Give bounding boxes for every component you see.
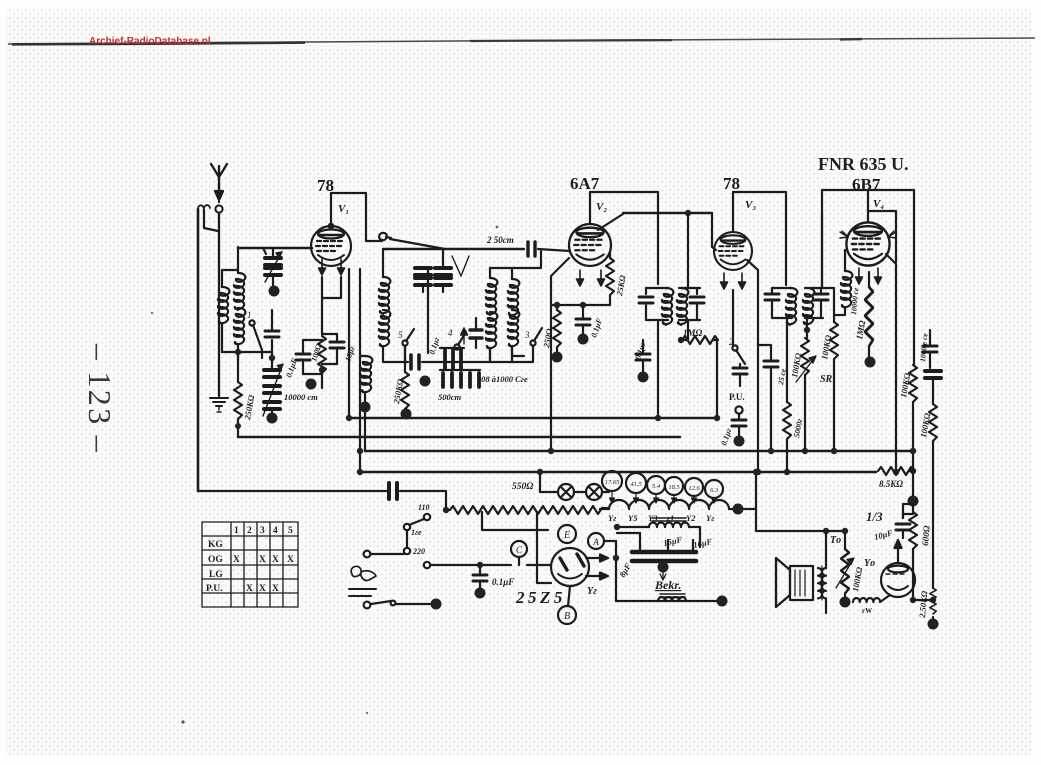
junction — [269, 355, 275, 361]
svg-text:E: E — [563, 530, 570, 541]
svg-text:4: 4 — [273, 526, 278, 536]
svg-text:V₃: V₃ — [745, 199, 756, 211]
mains wire — [370, 553, 404, 555]
terminal osc — [401, 409, 412, 420]
svg-text:X: X — [259, 555, 266, 565]
wire chassis vertical — [197, 209, 200, 491]
output transformer — [818, 566, 826, 600]
terminal cathode — [306, 379, 317, 390]
terminal trimmer grid — [269, 286, 280, 297]
svg-text:V₄: V₄ — [873, 198, 884, 210]
lead-in hooks — [198, 205, 210, 210]
junction — [823, 528, 829, 534]
lead-in jog — [204, 210, 218, 231]
junction — [235, 349, 241, 355]
switch 2 PU — [729, 337, 745, 364]
wire V3 right down — [747, 260, 758, 472]
bus y437 — [238, 436, 680, 439]
V2 plate diag — [598, 214, 623, 230]
junction — [655, 415, 661, 421]
svg-text:A: A — [592, 537, 599, 547]
junction — [319, 367, 325, 373]
wire V1 to 250cm cap — [390, 239, 445, 249]
svg-text:Yо: Yо — [864, 558, 875, 569]
wire heater to bus — [744, 472, 756, 531]
wire primary top — [825, 531, 827, 568]
wire mixer bottom — [490, 346, 533, 362]
svg-text:6B7: 6B7 — [852, 175, 881, 194]
svg-text:78: 78 — [723, 174, 740, 193]
svg-text:P.U.: P.U. — [206, 584, 223, 594]
svg-text:5: 5 — [288, 526, 293, 536]
terminal tone — [840, 597, 851, 608]
voltage circle 17.65 — [602, 471, 622, 503]
hum choke Bekr — [658, 594, 686, 601]
svg-text:Yг: Yг — [706, 513, 714, 523]
wire mains bus y491 — [198, 490, 386, 492]
IF transformer T2 — [677, 288, 704, 325]
capacitor 0.1uF PU top — [733, 364, 747, 386]
svg-text:Archief-RadioDatabase.nl: Archief-RadioDatabase.nl — [89, 36, 211, 47]
resistor 5000ohm — [783, 402, 791, 472]
capacitor 10uF Y6 — [896, 514, 913, 538]
terminal — [552, 352, 563, 363]
resistor 250K ant — [234, 360, 242, 437]
terminal — [578, 334, 589, 345]
resistor 250K bottom — [930, 588, 936, 621]
junction — [548, 448, 554, 454]
svg-text:500cm: 500cm — [438, 392, 462, 402]
svg-text:C: C — [516, 545, 523, 555]
svg-text:110: 110 — [418, 503, 430, 512]
wire V1 plate vertical — [359, 269, 361, 472]
svg-text:1ге: 1ге — [411, 528, 422, 537]
switch 3 — [524, 328, 542, 346]
terminal B- — [717, 596, 728, 607]
junction — [831, 448, 837, 454]
junction — [755, 469, 761, 475]
svg-text:4: 4 — [448, 328, 453, 338]
mains terminal — [364, 551, 371, 558]
capacitor 250cm — [528, 242, 570, 256]
svg-text:1MΩ: 1MΩ — [683, 328, 703, 338]
dial lamp 2 — [586, 484, 602, 500]
svg-text:17.65: 17.65 — [605, 479, 620, 486]
svg-text:3: 3 — [260, 526, 265, 536]
bus y418 — [349, 417, 717, 420]
voltage circle 12.6 — [685, 478, 703, 503]
potentiometer 550ohm — [446, 506, 607, 514]
ground — [210, 398, 228, 412]
V3 cathode arrows — [721, 273, 728, 289]
svg-text:3: 3 — [524, 330, 530, 340]
resistor 25K screen — [606, 252, 614, 305]
wire cluster A bottom — [222, 352, 272, 360]
wire T4 bottom — [806, 318, 808, 338]
switch table — [202, 522, 298, 607]
cap 0.1uF osc lead — [427, 270, 429, 353]
svg-text:18.5: 18.5 — [668, 484, 680, 491]
junction — [910, 597, 916, 603]
svg-text:LG: LG — [209, 570, 223, 580]
tube Y6 output — [881, 563, 915, 597]
wire T2 bottom — [681, 320, 688, 340]
wire to V3 grid — [712, 213, 716, 250]
coil L4 osc — [379, 250, 390, 314]
svg-text:X: X — [272, 555, 279, 565]
junction — [678, 337, 684, 343]
cap common terminal — [658, 562, 669, 581]
V1 cathode arrows — [319, 259, 326, 275]
capacitor 0.1uF mains — [473, 565, 487, 589]
voltage circle 6.3 — [705, 480, 723, 503]
junction — [614, 524, 620, 530]
resistor 100ohm cathode — [318, 336, 326, 388]
resistor 100K diode load — [801, 338, 809, 451]
trimmer grid — [263, 248, 282, 286]
wire y213 — [623, 212, 712, 214]
svg-text:г1: г1 — [667, 513, 674, 523]
circle B — [558, 586, 576, 624]
junction — [714, 415, 720, 421]
bus y451 — [365, 450, 915, 453]
svg-text:X: X — [246, 584, 253, 594]
speaker — [776, 558, 813, 607]
plug prongs — [349, 589, 376, 596]
heater chain ends — [600, 508, 734, 510]
svg-text:P.U.: P.U. — [729, 392, 745, 402]
PU jack — [735, 406, 742, 413]
wire tube out to rail — [913, 599, 933, 601]
rf choke u — [366, 233, 391, 241]
svg-text:B: B — [564, 611, 570, 622]
terminal — [638, 372, 649, 383]
wire C row — [527, 564, 551, 566]
junction — [768, 448, 774, 454]
svg-text:78: 78 — [317, 176, 334, 195]
svg-text:6.3: 6.3 — [710, 487, 719, 494]
resistor 600ohm — [909, 506, 917, 600]
dial lamp 1 — [558, 484, 574, 500]
capacitor 1000 ohm cm blob — [925, 371, 941, 404]
wire T3 down — [786, 318, 788, 402]
svg-text:гW: гW — [862, 607, 872, 615]
wire antenna down — [218, 213, 220, 396]
switch 1 band — [247, 310, 262, 358]
svg-text:Yг: Yг — [608, 513, 616, 523]
circle E — [558, 525, 576, 543]
switch 4 — [448, 328, 466, 350]
V2 grid cap box — [590, 192, 658, 284]
capacitor 1000cm — [923, 330, 937, 368]
V1 cathode wires — [322, 277, 341, 334]
svg-text:Tо: Tо — [830, 535, 841, 546]
svg-text:220: 220 — [412, 547, 425, 556]
terminal — [865, 357, 876, 368]
svg-text:Y2: Y2 — [686, 513, 696, 523]
junction — [357, 448, 363, 454]
terminal PU — [734, 436, 745, 447]
potentiometer SR arrow — [796, 356, 816, 382]
resistor 100K avc — [830, 288, 838, 451]
terminal 600 top — [908, 496, 919, 507]
wire mixer top — [490, 251, 541, 268]
circle C — [511, 541, 527, 565]
junction — [930, 597, 936, 603]
wire to pot — [445, 491, 447, 510]
terminal bottom right — [928, 619, 939, 630]
resistor 100K rail — [909, 365, 917, 471]
svg-text:X: X — [287, 555, 294, 565]
wire pot tap2 down — [537, 512, 551, 583]
rectifier plate arrows — [586, 555, 608, 562]
antenna terminal — [215, 205, 222, 212]
svg-text:Yг: Yг — [587, 586, 597, 597]
V4 side box — [822, 190, 896, 288]
junction — [613, 555, 619, 561]
trimmer cap variable 10000cm — [263, 352, 283, 416]
voltage circle 18.5 — [665, 477, 683, 503]
svg-text:SR: SR — [820, 374, 833, 385]
junction — [477, 562, 483, 568]
junction — [802, 448, 808, 454]
resistor 1M — [682, 336, 718, 344]
coil L7 mixer — [508, 268, 524, 356]
terminal switch — [431, 599, 442, 610]
wire V3 down — [732, 290, 734, 345]
wire pot tap down — [482, 512, 548, 530]
scan line artifact — [8, 38, 1035, 44]
IF transformer T3 — [765, 288, 797, 325]
junction pot — [443, 507, 449, 513]
capacitor mains coupling — [389, 483, 446, 499]
wire B- bottom — [616, 600, 722, 602]
V2 cathode arrows — [577, 270, 584, 286]
svg-text:Y5: Y5 — [628, 513, 638, 523]
coil 10000cm — [834, 250, 852, 315]
wire osc row y362 — [422, 361, 529, 363]
tuning gang caps — [415, 249, 469, 292]
wire V1 screen vertical — [348, 269, 350, 418]
coil L6 mixer — [486, 268, 497, 360]
rectifier 25Z5 — [551, 548, 589, 586]
lamp wires — [540, 491, 609, 493]
series cap osc — [411, 355, 419, 369]
junction — [554, 302, 560, 308]
svg-text:550Ω: 550Ω — [512, 482, 533, 492]
svg-text:1: 1 — [234, 526, 239, 536]
svg-text:41.5: 41.5 — [630, 481, 642, 488]
junction — [804, 327, 810, 333]
svg-text:– 123 –: – 123 – — [82, 343, 118, 454]
svg-text:V₂: V₂ — [596, 201, 607, 213]
terminal — [420, 376, 431, 387]
svg-text:1/3: 1/3 — [866, 509, 883, 524]
switch 5 — [398, 329, 414, 362]
svg-text:12.6: 12.6 — [688, 485, 700, 492]
svg-text:8.5KΩ: 8.5KΩ — [879, 479, 903, 489]
svg-text:Bekr.: Bekr. — [654, 578, 681, 592]
antenna — [211, 164, 227, 202]
wire A to rail — [604, 540, 616, 542]
power transformer tap switch — [404, 514, 430, 554]
svg-text:г08 à1000 Cге: г08 à1000 Cге — [478, 374, 528, 384]
svg-text:1: 1 — [247, 310, 252, 320]
tube V1 78 — [311, 224, 351, 266]
capacitor 25cm — [758, 345, 778, 451]
svg-text:2 50cm: 2 50cm — [486, 235, 514, 245]
wire transformer feed — [756, 530, 845, 532]
svg-text:6A7: 6A7 — [570, 174, 600, 193]
svg-text:5: 5 — [398, 330, 403, 340]
resistor 8.5K — [878, 467, 914, 475]
heater chain — [609, 500, 729, 509]
junction — [842, 528, 848, 534]
wire lower tap — [424, 562, 430, 568]
svg-text:2: 2 — [247, 526, 252, 536]
svg-text:25Z5: 25Z5 — [515, 588, 566, 607]
junction — [910, 468, 916, 474]
svg-text:0.1μF: 0.1μF — [492, 577, 514, 587]
IF transformer T4 — [803, 288, 828, 325]
V4 box top — [822, 190, 914, 222]
coil L1 antenna — [218, 270, 229, 352]
capacitor 0.1uF PU bottom — [732, 414, 746, 436]
capacitor 10uF cathode — [322, 334, 344, 364]
wire V2 bias row — [551, 304, 610, 306]
wire right rail — [913, 190, 915, 365]
mains plug — [351, 566, 376, 580]
tube V4 6B7 — [846, 222, 889, 265]
resistor 250K osc — [401, 346, 409, 412]
junction — [346, 415, 352, 421]
coil L5 osc — [379, 310, 408, 362]
terminal cap — [475, 588, 486, 599]
potentiometer 100K tone — [836, 531, 854, 599]
wire top of 600ohm — [912, 471, 914, 501]
V1 grid cap box — [331, 193, 366, 241]
coil L3 — [234, 308, 245, 360]
band caps cluster 500cm — [440, 348, 480, 387]
variable arrow — [461, 328, 468, 344]
coil L2 — [234, 247, 245, 310]
capacitor 0.1uF — [296, 340, 322, 374]
cap pair mid — [470, 318, 482, 348]
wire T4 top link — [823, 287, 834, 289]
svg-text:X: X — [259, 584, 266, 594]
junction — [893, 469, 899, 475]
electrolytic caps 15uF 16uF 8uF — [617, 533, 696, 561]
wire T2 top — [687, 213, 689, 288]
svg-text:5.4: 5.4 — [652, 483, 661, 490]
grid coil FW — [853, 595, 890, 602]
svg-text:600Ω: 600Ω — [920, 525, 932, 546]
wire PU vertical — [716, 340, 718, 418]
wire osc to bus — [364, 412, 366, 451]
wire Y6 top to 600 — [903, 504, 913, 518]
svg-text:FNR 635 U.: FNR 635 U. — [818, 154, 909, 174]
wire T1 down — [657, 320, 659, 418]
oscillator coil — [360, 356, 372, 402]
circle A — [588, 533, 604, 549]
IF transformer T1 — [639, 288, 673, 325]
svg-text:Y3: Y3 — [648, 513, 658, 523]
V4 side grid arrows — [840, 231, 848, 238]
terminal heater — [733, 504, 744, 515]
resistor 100K agc — [929, 404, 937, 588]
capacitor 0.1uF if — [636, 340, 650, 372]
filter choke — [617, 518, 700, 547]
junction — [685, 210, 691, 216]
wire V2 left down — [551, 258, 569, 451]
svg-text:X: X — [272, 584, 279, 594]
mains switch — [364, 601, 430, 609]
junction — [910, 448, 916, 454]
capacitor 0.1uF V2 — [576, 305, 590, 335]
terminal — [267, 413, 278, 424]
svg-text:V₁: V₁ — [338, 203, 349, 215]
voltage circle 41.5 — [626, 473, 646, 503]
svg-text:KG: KG — [208, 540, 223, 550]
page number 123 rotated — [82, 343, 118, 454]
voltage circle 5.4 — [647, 476, 665, 503]
svg-text:X: X — [233, 555, 240, 565]
svg-text:10000 cm: 10000 cm — [284, 392, 318, 402]
resistor 250ohm — [553, 305, 561, 354]
capacitor padder — [265, 310, 279, 352]
wire coil tops — [222, 269, 238, 271]
svg-text:OG: OG — [208, 555, 223, 565]
junction — [753, 469, 759, 475]
wire V4 right down — [886, 254, 896, 472]
tube V2 6A7 — [569, 224, 611, 266]
bus y472 — [359, 471, 876, 474]
Y6 grid cap arrow — [895, 540, 902, 563]
tube V3 78 — [714, 232, 752, 270]
V3 grid box — [733, 192, 786, 285]
wire grid V1 — [238, 247, 312, 250]
junction — [357, 469, 363, 475]
svg-text:2: 2 — [729, 337, 734, 347]
wire primary bottom — [825, 599, 827, 613]
wire T4 top to box — [821, 213, 823, 288]
junction — [784, 469, 790, 475]
junction — [537, 469, 543, 475]
V4 cathode arrows — [856, 268, 863, 284]
wire lamp up — [539, 472, 541, 492]
wire plate out vertical — [615, 541, 617, 601]
resistor 1M V4 grid — [865, 272, 873, 358]
terminal osc coil — [360, 402, 371, 413]
